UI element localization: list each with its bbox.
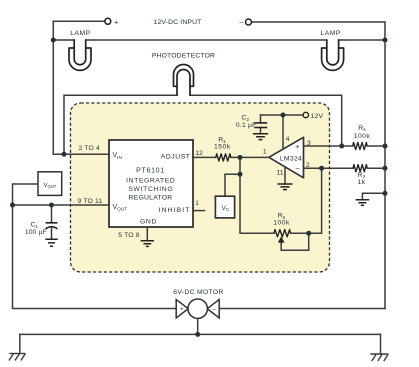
svg-text:SWITCHING: SWITCHING (128, 186, 173, 193)
svg-text:9 TO 11: 9 TO 11 (77, 198, 102, 205)
ground below C2 (253, 134, 268, 140)
svg-text:2 TO 4: 2 TO 4 (78, 145, 99, 152)
node junction right rail (383, 38, 388, 43)
wire ADJUST pin to R1 (193, 156, 216, 158)
svg-text:12V: 12V (311, 113, 324, 120)
potentiometer R2 element (274, 230, 291, 237)
node 12V rail (281, 113, 286, 118)
chassis ground bottom left (9, 354, 25, 361)
wire right ground stub (362, 193, 385, 200)
wire ground bus (20, 333, 381, 335)
svg-text:INHIBIT: INHIBIT (159, 207, 191, 214)
wire motor case lead (197, 318, 199, 334)
wire R2 right to pin2 node (291, 168, 322, 233)
motor M1 (176, 299, 219, 318)
node C1 tap (49, 203, 54, 208)
svg-text:12V-DC INPUT: 12V-DC INPUT (154, 19, 202, 26)
node op-amp output (238, 155, 243, 160)
lamp left filament (74, 40, 86, 65)
box VC (215, 196, 234, 218)
lamp left envelope (69, 48, 91, 70)
svg-text:100k: 100k (273, 220, 290, 227)
wire C2 lead (260, 115, 262, 123)
wire - terminal to right rail (252, 22, 386, 40)
node motor ground (195, 332, 200, 337)
node VOUT rail (10, 203, 15, 208)
potentiometer R2 wiper arrow (279, 238, 284, 244)
wire C2 bottom lead (260, 128, 262, 134)
wire VOUT box lead (13, 184, 39, 205)
node pin3 photodetector (339, 144, 344, 149)
wire lamp rail (53, 39, 385, 41)
svg-text:2: 2 (306, 162, 310, 169)
wire op-amp pin3 to R4 (304, 145, 353, 147)
node VC tap (238, 172, 243, 177)
wire left rail to motor (13, 205, 177, 309)
terminal 12V (303, 112, 308, 117)
node junction left rail (51, 38, 56, 43)
svg-text:LAMP: LAMP (70, 30, 91, 37)
ground right stub (356, 200, 370, 206)
svg-text:INTEGRATED: INTEGRATED (126, 177, 175, 184)
wire INHIBIT stub (193, 210, 204, 212)
svg-text:ADJUST: ADJUST (161, 154, 191, 161)
wire + riser (52, 21, 54, 40)
svg-text:GND: GND (140, 218, 157, 225)
ground below PT6101 GND (141, 241, 154, 247)
wire C1 lead (51, 205, 53, 223)
wire + terminal lead (53, 20, 104, 22)
svg-text:+: + (295, 142, 300, 151)
svg-text:150k: 150k (214, 143, 231, 150)
wire VOUT pin (13, 204, 110, 206)
terminal - (246, 19, 252, 25)
wire 12V rail (261, 114, 303, 116)
capacitor C1 (46, 223, 58, 229)
wire feedback vertical to R2 (240, 157, 274, 233)
svg-text:100k: 100k (354, 133, 371, 140)
svg-text:LM324: LM324 (280, 155, 302, 162)
svg-text:0.1 µF: 0.1 µF (236, 122, 257, 129)
wire R1 to op-amp output (231, 156, 269, 158)
lamp right envelope (322, 48, 344, 70)
wire R4 to right rail (367, 145, 385, 147)
wire right rail (384, 40, 386, 309)
node R4 right (383, 144, 388, 149)
box VOUT (38, 172, 62, 196)
wire R2 wiper loop (281, 233, 309, 250)
wire op-amp pin2 to R3 (304, 167, 354, 169)
svg-text:6V-DC MOTOR: 6V-DC MOTOR (173, 289, 223, 296)
svg-text:REGULATOR: REGULATOR (129, 195, 173, 202)
svg-text:11: 11 (276, 170, 283, 177)
wire VIN left (53, 40, 109, 154)
svg-text:100 µF: 100 µF (25, 229, 47, 236)
node VIN junction (62, 152, 67, 157)
wire ground bus right drop (380, 334, 382, 354)
ground at op-amp pin11 (277, 184, 292, 190)
node R3 right (383, 166, 388, 171)
chassis ground bottom right (370, 354, 388, 361)
dashed controller module box (71, 103, 330, 272)
resistor R1 (216, 154, 231, 161)
terminal + (105, 18, 111, 24)
resistor R4 (353, 142, 367, 149)
svg-text:1: 1 (195, 200, 199, 207)
svg-text:PHOTODETECTOR: PHOTODETECTOR (152, 53, 215, 60)
wire photodetector loop left (64, 95, 177, 154)
svg-text:+: + (180, 307, 184, 313)
node ground stub (383, 191, 388, 196)
svg-text:4: 4 (286, 136, 290, 143)
wire R3 to right rail (367, 167, 385, 169)
resistor R3 (353, 165, 367, 172)
svg-text:3: 3 (307, 140, 311, 147)
wire ground bus left drop (19, 334, 21, 353)
wire op-amp pin4 (282, 115, 284, 150)
wire motor right (219, 308, 385, 310)
svg-text:1k: 1k (358, 179, 366, 186)
ground below C1 (45, 239, 57, 246)
wire VC stub (225, 174, 240, 196)
wire C1 bottom lead (51, 228, 53, 239)
svg-text:LAMP: LAMP (320, 30, 341, 37)
photodetector envelope (174, 65, 194, 87)
PT6101 box (109, 140, 193, 227)
op-amp U1 LM324 (269, 137, 304, 178)
wire op-amp pin11 ground lead (284, 168, 286, 185)
photodetector filament (177, 70, 190, 96)
node R2 wiper tie (306, 231, 311, 236)
wire photodetector loop right (190, 95, 342, 146)
wire PT6101 GND lead (146, 227, 148, 241)
capacitor C2 (254, 123, 267, 128)
svg-text:1: 1 (263, 148, 267, 155)
svg-text:12: 12 (195, 150, 203, 157)
svg-text:PT6101: PT6101 (136, 168, 165, 175)
svg-text:+: + (114, 17, 119, 26)
svg-text:VOUT: VOUT (44, 183, 57, 189)
lamp right filament (327, 40, 339, 65)
svg-text:5 TO 8: 5 TO 8 (118, 232, 139, 239)
node pin2 feedback (319, 166, 324, 171)
